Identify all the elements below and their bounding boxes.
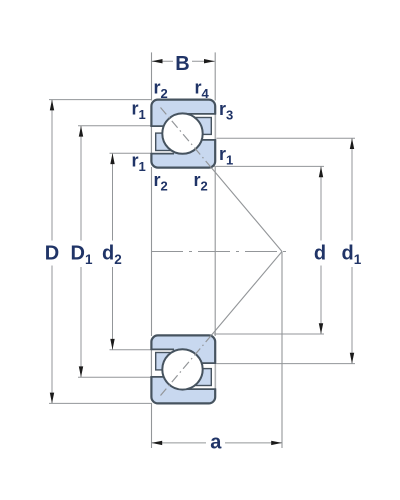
gap white right — [186, 115, 216, 140]
dimension D1 line — [80, 126, 82, 377]
contact angle solid line lower — [211, 252, 282, 336]
arrow d2 bottom — [110, 339, 114, 350]
dimension d line — [320, 166, 322, 334]
tick d2 bottom y=349.7 — [110, 349, 153, 351]
svg-text:B: B — [175, 53, 189, 75]
dimension d1 line — [351, 138, 353, 363]
arrow d2 top — [110, 153, 114, 164]
cage right rect — [196, 118, 211, 135]
inner ring upper-left edge — [151, 153, 175, 155]
arrow B right — [204, 59, 215, 63]
tick lines left side — [49, 100, 152, 404]
gap white left — [150, 127, 179, 153]
arrow D1 bottom — [79, 366, 83, 377]
tick D bottom y=403.4 — [49, 402, 152, 404]
tick lines right side — [214, 138, 355, 363]
arrow d1 bottom — [350, 353, 354, 364]
dimension d2 line — [112, 153, 114, 349]
svg-text:a: a — [210, 432, 222, 454]
tick D1 top y=125.8 — [78, 125, 152, 127]
gap white left — [150, 350, 179, 376]
dimension B line — [152, 60, 215, 62]
face line across left gap — [151, 350, 153, 377]
outer ring lower-right edge — [184, 113, 216, 115]
face line across right gap — [214, 364, 216, 390]
tick D top y=99.6 — [49, 99, 152, 101]
contact angle dash-dot through ball — [161, 108, 212, 168]
contact angle solid line upper — [211, 168, 282, 252]
cage left rect — [156, 133, 171, 150]
inner ring shoulder upper-right edge — [184, 362, 216, 364]
bottom bearing (mirrored) — [150, 335, 216, 403]
arrow a left — [151, 441, 162, 445]
tick d2 top y=153.3 — [110, 152, 153, 154]
gap white right — [186, 364, 216, 389]
contact angle dash-dot through ball — [161, 335, 212, 395]
tick D1 bottom y=377.2 — [78, 376, 152, 378]
inner ring upper-left edge — [151, 348, 175, 350]
top bearing — [150, 100, 216, 168]
extension line right face x=215.2 — [214, 52, 216, 336]
tick d1 top y=138.5 — [214, 137, 355, 139]
tick d top y=167.4 — [214, 165, 324, 167]
svg-text:D: D — [45, 243, 59, 265]
outer ring body — [151, 335, 215, 403]
tick d1 bottom y=364.5 — [214, 363, 355, 365]
center axis dash-dot — [151, 251, 290, 253]
inner ring shoulder upper-right edge — [184, 139, 216, 141]
ball — [162, 113, 202, 153]
face line across right gap — [214, 114, 216, 140]
arrow D bottom — [50, 393, 54, 404]
svg-text:d: d — [314, 243, 326, 265]
ball — [162, 349, 202, 389]
arrow d1 top — [350, 138, 354, 149]
arrow B left — [152, 59, 163, 63]
cage left rect — [156, 353, 171, 370]
arrow d bottom — [319, 323, 323, 334]
cage right rect — [196, 369, 211, 386]
extension line left face x=151.4 — [151, 52, 153, 448]
tick d bottom y=335.6 — [214, 333, 324, 335]
outer ring lower-left edge — [151, 125, 175, 127]
outer ring lower-left edge — [151, 376, 175, 378]
apex vertical line — [281, 252, 283, 449]
arrow D top — [50, 100, 54, 111]
outer ring body — [151, 100, 215, 168]
dimension a line — [151, 442, 282, 444]
arrow d top — [319, 166, 323, 177]
outer ring lower-right edge — [184, 388, 216, 390]
face line across left gap — [151, 127, 153, 154]
arrow D1 top — [79, 126, 83, 137]
dimension D line — [51, 100, 53, 404]
arrow a right — [271, 441, 282, 445]
